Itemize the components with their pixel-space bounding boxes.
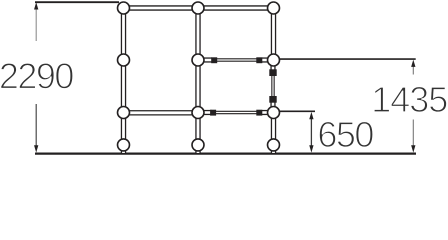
svg-text:1435: 1435 bbox=[371, 79, 447, 120]
svg-text:650: 650 bbox=[317, 114, 373, 155]
svg-text:2290: 2290 bbox=[0, 56, 73, 97]
